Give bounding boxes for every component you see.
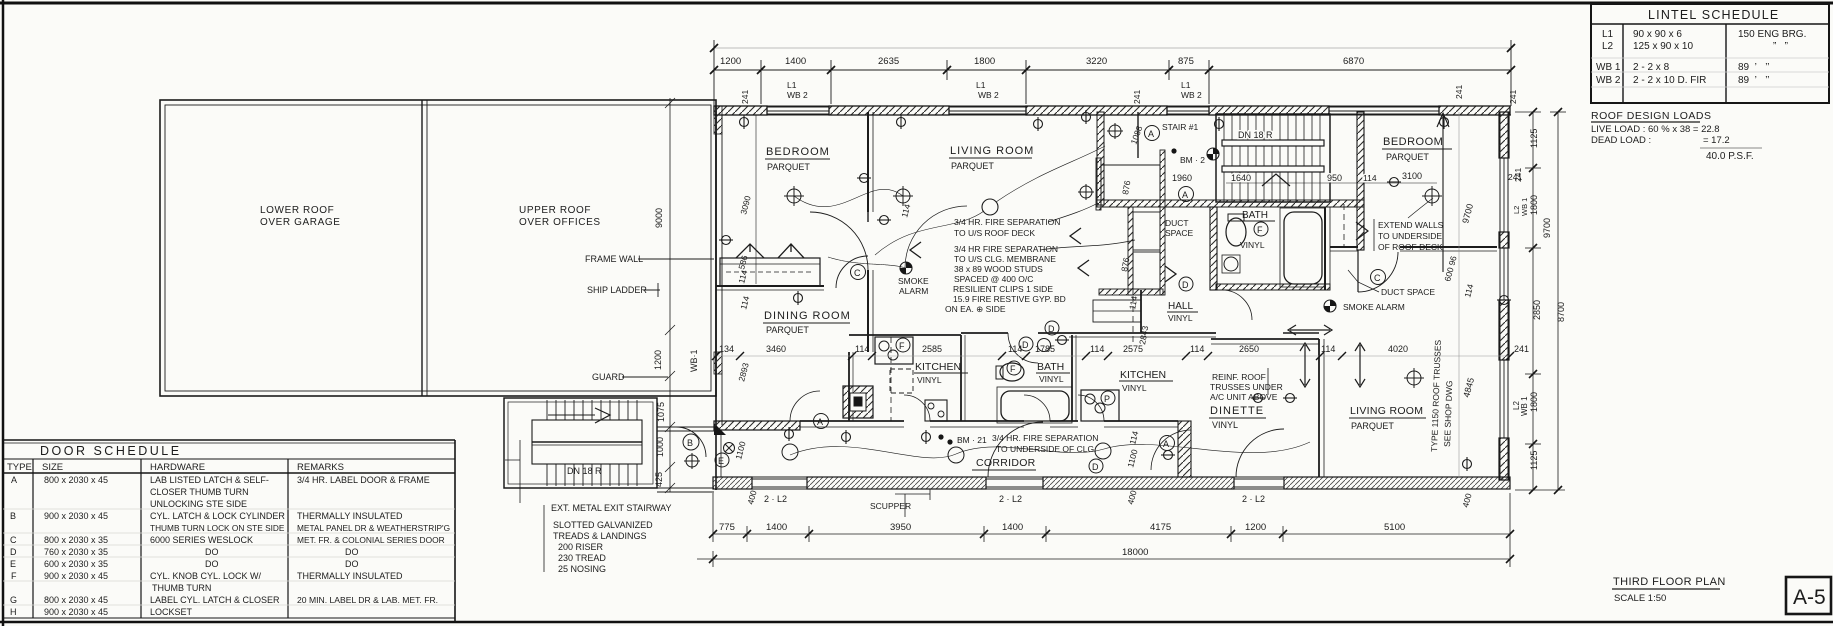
svg-text:ALARM: ALARM bbox=[899, 286, 928, 296]
svg-text:15.9 FIRE RESTIVE GYP. BD: 15.9 FIRE RESTIVE GYP. BD bbox=[953, 294, 1066, 304]
svg-text:876: 876 bbox=[1120, 179, 1132, 195]
kitchenR door arc bbox=[1078, 395, 1104, 421]
bedroom interior dim line bbox=[755, 115, 757, 284]
svg-text:6870: 6870 bbox=[1343, 56, 1364, 67]
svg-text:LIVING ROOM: LIVING ROOM bbox=[950, 145, 1034, 157]
svg-text:38 x 89 WOOD STUDS: 38 x 89 WOOD STUDS bbox=[954, 264, 1043, 274]
svg-text:3/4 HR. FIRE SEPARATION: 3/4 HR. FIRE SEPARATION bbox=[992, 433, 1098, 443]
lintel tags below dims bbox=[787, 80, 1202, 100]
bath1 tub bbox=[1284, 212, 1322, 284]
wiring curves bbox=[790, 146, 1310, 458]
svg-text:1400: 1400 bbox=[785, 56, 806, 67]
corridor north wall bbox=[714, 421, 1178, 429]
svg-text:THERMALLY INSULATED: THERMALLY INSULATED bbox=[297, 511, 403, 521]
svg-text:SCALE 1:50: SCALE 1:50 bbox=[1614, 593, 1666, 604]
svg-text:400: 400 bbox=[1460, 492, 1473, 509]
bath1 east wall bbox=[1325, 207, 1330, 290]
main dim line bbox=[714, 40, 1511, 106]
svg-text:D: D bbox=[1182, 280, 1189, 290]
south door sills bbox=[752, 479, 1284, 487]
svg-text:3100: 3100 bbox=[1402, 171, 1422, 181]
north windows (thin) bbox=[767, 107, 1439, 114]
svg-text:2 · L2: 2 · L2 bbox=[764, 494, 787, 504]
bedroom door arc bbox=[810, 212, 868, 270]
svg-text:4020: 4020 bbox=[1388, 344, 1408, 354]
svg-text:UNLOCKING STE SIDE: UNLOCKING STE SIDE bbox=[150, 499, 247, 509]
svg-text:3950: 3950 bbox=[890, 522, 911, 533]
svg-text:2575: 2575 bbox=[1123, 344, 1143, 354]
leader curves for fire note bbox=[1048, 203, 1098, 222]
svg-text:760 x 2030 x 35: 760 x 2030 x 35 bbox=[44, 547, 108, 557]
svg-text:OF ROOF DECK: OF ROOF DECK bbox=[1378, 242, 1443, 252]
svg-text:WB 2: WB 2 bbox=[1181, 90, 1202, 100]
svg-text:C: C bbox=[854, 268, 861, 278]
svg-text:LABEL CYL. LATCH & CLOSER: LABEL CYL. LATCH & CLOSER bbox=[150, 595, 280, 605]
bedroom east wall bbox=[868, 112, 873, 352]
svg-text:DO: DO bbox=[345, 547, 359, 557]
svg-text:GUARD: GUARD bbox=[592, 372, 625, 382]
kitchen block top wall bbox=[849, 334, 961, 336]
svg-text:2 · L2: 2 · L2 bbox=[1242, 494, 1265, 504]
svg-text:114: 114 bbox=[1127, 295, 1139, 310]
svg-text:EXTEND WALLS: EXTEND WALLS bbox=[1378, 220, 1444, 230]
corridor south door arc bbox=[988, 422, 1043, 477]
svg-text:BM · 2: BM · 2 bbox=[1180, 155, 1205, 165]
svg-text:800 x 2030 x 45: 800 x 2030 x 45 bbox=[44, 475, 108, 485]
svg-text:E: E bbox=[10, 559, 16, 569]
north wall segment 1 bbox=[714, 106, 767, 115]
svg-text:1785: 1785 bbox=[1035, 344, 1055, 354]
svg-text:SMOKE ALARM: SMOKE ALARM bbox=[1343, 302, 1405, 312]
svg-text:VINYL: VINYL bbox=[1240, 240, 1265, 250]
svg-text:THIRD FLOOR PLAN: THIRD FLOOR PLAN bbox=[1613, 576, 1726, 588]
svg-text:F: F bbox=[899, 341, 905, 351]
svg-text:F: F bbox=[11, 571, 17, 581]
svg-text:A: A bbox=[1163, 439, 1169, 449]
dinette/livingR wall bbox=[1319, 339, 1324, 477]
svg-text:” ”: ” ” bbox=[1773, 41, 1788, 52]
svg-text:114: 114 bbox=[1363, 173, 1377, 183]
svg-text:F: F bbox=[1010, 364, 1016, 374]
smoke alarm bottom-left bbox=[724, 443, 735, 454]
chimney hatched bbox=[843, 386, 873, 418]
svg-text:134: 134 bbox=[719, 344, 734, 354]
svg-text:1400: 1400 bbox=[766, 522, 787, 533]
svg-text:PARQUET: PARQUET bbox=[1386, 152, 1429, 162]
dim ticks bbox=[710, 44, 1515, 74]
living room big swing bbox=[905, 206, 967, 268]
svg-text:2 - 2 x 10 D. FIR: 2 - 2 x 10 D. FIR bbox=[1633, 75, 1706, 86]
svg-text:SHIP LADDER: SHIP LADDER bbox=[587, 285, 647, 295]
svg-text:DN 18 R: DN 18 R bbox=[567, 466, 602, 476]
svg-text:114: 114 bbox=[1462, 283, 1475, 299]
top border bbox=[0, 2, 1833, 5]
svg-text:REMARKS: REMARKS bbox=[297, 462, 344, 473]
svg-text:LOCKSET: LOCKSET bbox=[150, 607, 193, 617]
svg-text:900 x 2030 x 45: 900 x 2030 x 45 bbox=[44, 511, 108, 521]
stair arrow bbox=[1262, 174, 1290, 186]
svg-text:90 x 90 x 6: 90 x 90 x 6 bbox=[1633, 29, 1682, 40]
svg-text:2 · L2: 2 · L2 bbox=[999, 494, 1022, 504]
svg-text:114: 114 bbox=[1127, 430, 1140, 446]
svg-text:CORRIDOR: CORRIDOR bbox=[976, 457, 1036, 469]
svg-text:89 ’ ’’: 89 ’ ’’ bbox=[1738, 75, 1770, 86]
svg-text:RESILIENT CLIPS 1 SIDE: RESILIENT CLIPS 1 SIDE bbox=[953, 284, 1053, 294]
interior vertical dim line right bbox=[1458, 112, 1460, 477]
svg-text:DO: DO bbox=[345, 559, 359, 569]
svg-text:BATH: BATH bbox=[1242, 210, 1268, 221]
kitchenL/bath wall bbox=[961, 335, 965, 421]
svg-text:E: E bbox=[718, 456, 724, 466]
svg-text:DEAD LOAD :: DEAD LOAD : bbox=[1591, 135, 1651, 146]
bathB vanity bbox=[1038, 339, 1051, 352]
svg-text:FRAME WALL: FRAME WALL bbox=[585, 254, 643, 264]
svg-text:BEDROOM: BEDROOM bbox=[766, 146, 830, 158]
svg-text:DINETTE: DINETTE bbox=[1210, 405, 1264, 417]
bottom border bbox=[0, 621, 1833, 624]
south wall segment 1 bbox=[713, 477, 752, 489]
svg-text:3090: 3090 bbox=[738, 194, 753, 215]
svg-text:LIVE LOAD : 60 % x 38 = 22.8: LIVE LOAD : 60 % x 38 = 22.8 bbox=[1591, 124, 1720, 135]
double-headed arrows livingR bbox=[1288, 325, 1365, 387]
dinette north wall bbox=[1211, 339, 1319, 344]
svg-text:H: H bbox=[10, 607, 17, 617]
svg-text:2635: 2635 bbox=[878, 56, 899, 67]
bath top wall bbox=[961, 332, 1069, 334]
svg-text:L1: L1 bbox=[787, 80, 797, 90]
svg-text:1125: 1125 bbox=[1529, 451, 1539, 470]
svg-text:BEDROOM: BEDROOM bbox=[1383, 136, 1443, 148]
svg-text:5100: 5100 bbox=[1384, 522, 1405, 533]
bath1 west wall bbox=[1210, 207, 1217, 290]
bath top door arc bbox=[1008, 333, 1038, 363]
dinette door arc from corridor bbox=[1151, 430, 1191, 470]
smoke alarm right bbox=[1324, 300, 1336, 312]
svg-text:TYPE: TYPE bbox=[7, 462, 32, 473]
svg-text:D: D bbox=[10, 547, 17, 557]
svg-text:WB 1: WB 1 bbox=[1596, 62, 1621, 73]
dining bottom wall bbox=[714, 421, 800, 430]
svg-text:VINYL: VINYL bbox=[917, 375, 942, 385]
kitchenL range bbox=[925, 400, 947, 421]
svg-text:LAB LISTED LATCH & SELF-: LAB LISTED LATCH & SELF- bbox=[150, 475, 269, 485]
svg-text:THUMB TURN: THUMB TURN bbox=[152, 583, 211, 593]
svg-text:89 ’ ’’: 89 ’ ’’ bbox=[1738, 62, 1770, 73]
svg-text:VINYL: VINYL bbox=[1212, 420, 1238, 430]
svg-text:TO U/S CLG. MEMBRANE: TO U/S CLG. MEMBRANE bbox=[954, 254, 1056, 264]
svg-text:DUCT: DUCT bbox=[1165, 218, 1189, 228]
bath1 vanity bbox=[1224, 257, 1238, 271]
svg-text:4175: 4175 bbox=[1150, 522, 1171, 533]
svg-text:2 - 2 x 8: 2 - 2 x 8 bbox=[1633, 62, 1670, 73]
svg-text:875: 875 bbox=[1178, 56, 1194, 67]
svg-text:SMOKE: SMOKE bbox=[898, 276, 929, 286]
svg-text:D: D bbox=[1022, 340, 1029, 350]
roof divider wall bbox=[421, 100, 423, 396]
svg-text:D: D bbox=[1092, 462, 1099, 472]
svg-text:L1: L1 bbox=[1602, 29, 1614, 40]
svg-text:DOOR SCHEDULE: DOOR SCHEDULE bbox=[40, 444, 182, 458]
svg-text:114: 114 bbox=[1190, 344, 1204, 354]
south wall segment 3 bbox=[1043, 477, 1234, 489]
svg-text:WB 1: WB 1 bbox=[1520, 198, 1529, 216]
dining door from corridor bbox=[790, 391, 820, 421]
faint upper line bbox=[714, 47, 1511, 49]
svg-text:SIZE: SIZE bbox=[42, 462, 63, 473]
kitchenL counter + sink bbox=[875, 337, 913, 364]
west wall bbox=[716, 106, 722, 432]
svg-text:1200: 1200 bbox=[1245, 522, 1266, 533]
svg-text:SEE SHOP DWG: SEE SHOP DWG bbox=[1442, 380, 1454, 447]
continuous wall face lines bbox=[713, 106, 1511, 489]
wall below stair1 bbox=[1097, 200, 1364, 207]
circled B door label bbox=[683, 434, 699, 450]
svg-text:METAL PANEL DR & WEATHERSTRIP': METAL PANEL DR & WEATHERSTRIP'G bbox=[297, 523, 450, 533]
svg-text:DN 18 R: DN 18 R bbox=[1238, 130, 1273, 140]
svg-text:1100: 1100 bbox=[1125, 448, 1139, 469]
svg-text:3460: 3460 bbox=[766, 344, 786, 354]
left border bbox=[2, 0, 5, 626]
svg-text:TREADS & LANDINGS: TREADS & LANDINGS bbox=[553, 531, 647, 541]
svg-text:PARQUET: PARQUET bbox=[951, 161, 994, 171]
svg-text:L2: L2 bbox=[1602, 41, 1614, 52]
svg-text:THERMALLY INSULATED: THERMALLY INSULATED bbox=[297, 571, 403, 581]
svg-text:PARQUET: PARQUET bbox=[1351, 421, 1394, 431]
hall/kitchen top wall bbox=[1069, 333, 1216, 337]
svg-text:C: C bbox=[1374, 273, 1381, 283]
svg-text:3220: 3220 bbox=[1086, 56, 1107, 67]
svg-text:2850: 2850 bbox=[1532, 300, 1542, 320]
svg-text:PARQUET: PARQUET bbox=[767, 162, 810, 172]
svg-text:241: 241 bbox=[1508, 90, 1518, 104]
svg-text:STAIR #1: STAIR #1 bbox=[1162, 122, 1198, 132]
door jamb chevrons bbox=[910, 228, 1176, 282]
circled A second bbox=[1179, 187, 1194, 202]
stair treads bbox=[547, 400, 637, 486]
svg-text:1800: 1800 bbox=[1529, 392, 1539, 412]
svg-text:TO UNDERSIDE: TO UNDERSIDE bbox=[1378, 231, 1442, 241]
svg-text:WB 1: WB 1 bbox=[1520, 396, 1529, 416]
svg-text:DO: DO bbox=[205, 547, 219, 557]
svg-text:2650: 2650 bbox=[1239, 344, 1259, 354]
svg-text:600 x 2030 x 35: 600 x 2030 x 35 bbox=[44, 559, 108, 569]
kitchenR counter + sink bbox=[1081, 390, 1119, 421]
bath1 toilet bbox=[1226, 218, 1246, 246]
svg-text:1200: 1200 bbox=[653, 350, 663, 370]
south wall segment 2 bbox=[807, 477, 986, 489]
svg-text:CYL. LATCH & LOCK CYLINDER: CYL. LATCH & LOCK CYLINDER bbox=[150, 511, 285, 521]
svg-text:DINING ROOM: DINING ROOM bbox=[764, 310, 851, 322]
svg-text:L1: L1 bbox=[1181, 80, 1191, 90]
svg-text:114: 114 bbox=[855, 344, 869, 354]
svg-text:B: B bbox=[10, 511, 16, 521]
svg-text:241: 241 bbox=[740, 90, 750, 104]
bedroom2 west wall bbox=[1357, 112, 1364, 250]
south wall segment 4 bbox=[1284, 477, 1510, 489]
svg-text:2585: 2585 bbox=[922, 344, 942, 354]
BM.21 note bbox=[938, 434, 943, 439]
svg-text:REINF. ROOF: REINF. ROOF bbox=[1212, 372, 1266, 382]
svg-text:A: A bbox=[1148, 129, 1154, 139]
svg-text:2843: 2843 bbox=[1137, 325, 1150, 346]
svg-text:114: 114 bbox=[736, 269, 749, 285]
svg-text:1640: 1640 bbox=[1231, 173, 1251, 183]
ceiling lights bbox=[684, 123, 1442, 469]
svg-text:775: 775 bbox=[719, 522, 735, 533]
dining west bottom corner triangle bbox=[714, 423, 726, 435]
svg-text:C: C bbox=[10, 535, 17, 545]
svg-text:1960: 1960 bbox=[1172, 173, 1192, 183]
svg-text:3/4 HR. LABEL DOOR & FRAME: 3/4 HR. LABEL DOOR & FRAME bbox=[297, 475, 430, 485]
svg-text:MET. FR. & COLONIAL SERIES DOO: MET. FR. & COLONIAL SERIES DOOR bbox=[297, 535, 445, 545]
dining door arc (C) bbox=[836, 256, 868, 288]
svg-text:OVER GARAGE: OVER GARAGE bbox=[260, 217, 341, 228]
bath1 south wall bbox=[1216, 284, 1330, 290]
svg-text:8700: 8700 bbox=[1556, 302, 1566, 322]
svg-text:SPACED @ 400 O/C: SPACED @ 400 O/C bbox=[954, 274, 1033, 284]
west wall corner hatch bbox=[714, 106, 722, 134]
bedroom/dining divider wall bbox=[716, 286, 824, 290]
svg-text:1125: 1125 bbox=[1529, 129, 1539, 148]
svg-text:400: 400 bbox=[1125, 489, 1138, 506]
svg-text:800 x 2030 x 45: 800 x 2030 x 45 bbox=[44, 595, 108, 605]
svg-text:DO: DO bbox=[205, 559, 219, 569]
door arc at exit bbox=[676, 427, 706, 457]
svg-text:950: 950 bbox=[1327, 173, 1342, 183]
svg-text:HALL: HALL bbox=[1168, 301, 1193, 312]
svg-text:114: 114 bbox=[1090, 344, 1104, 354]
kitchenL west wall bbox=[849, 352, 853, 421]
bedroom2 up arrow bbox=[1437, 113, 1449, 272]
bathB door arc bbox=[1024, 395, 1050, 421]
east windows bbox=[1500, 158, 1508, 438]
livingR north wall piece bbox=[1283, 332, 1319, 334]
svg-text:1400: 1400 bbox=[1002, 522, 1023, 533]
livingR south door arc bbox=[1236, 429, 1284, 477]
svg-text:6000 SERIES WESLOCK: 6000 SERIES WESLOCK bbox=[150, 535, 253, 545]
kitchenL fridge dashed bbox=[890, 369, 913, 393]
circled A bbox=[1145, 126, 1160, 141]
hall west wall bbox=[1140, 290, 1142, 333]
svg-text:1800: 1800 bbox=[974, 56, 995, 67]
north wall segment 2 bbox=[829, 106, 949, 115]
bedroom closet bbox=[720, 258, 820, 286]
smoke alarm (living) bbox=[900, 262, 912, 274]
exit walkway walls bbox=[657, 427, 714, 492]
svg-text:200 RISER: 200 RISER bbox=[558, 542, 604, 552]
svg-text:1100: 1100 bbox=[733, 440, 747, 461]
svg-text:VINYL: VINYL bbox=[1122, 383, 1147, 393]
svg-text:1088: 1088 bbox=[1128, 124, 1144, 145]
svg-text:= 17.2: = 17.2 bbox=[1703, 135, 1730, 146]
svg-text:WB 2: WB 2 bbox=[1596, 75, 1621, 86]
svg-text:SLOTTED GALVANIZED: SLOTTED GALVANIZED bbox=[553, 520, 653, 530]
svg-text:9000: 9000 bbox=[654, 208, 664, 228]
svg-text:P: P bbox=[1104, 394, 1110, 404]
svg-text:2893: 2893 bbox=[736, 361, 751, 382]
svg-text:A: A bbox=[817, 417, 823, 427]
svg-text:LOWER ROOF: LOWER ROOF bbox=[260, 205, 334, 216]
svg-text:WB 2: WB 2 bbox=[787, 90, 808, 100]
svg-text:LIVING ROOM: LIVING ROOM bbox=[1350, 405, 1423, 417]
svg-text:ON EA. ⊕ SIDE: ON EA. ⊕ SIDE bbox=[945, 304, 1006, 314]
svg-text:900 x 2030 x 45: 900 x 2030 x 45 bbox=[44, 607, 108, 617]
svg-text:KITCHEN: KITCHEN bbox=[915, 361, 961, 373]
svg-text:114: 114 bbox=[899, 203, 912, 219]
svg-text:G: G bbox=[10, 595, 17, 605]
svg-text:SPACE: SPACE bbox=[1165, 228, 1194, 238]
bedroom2 door arc bbox=[1358, 252, 1398, 292]
svg-text:241: 241 bbox=[1514, 344, 1529, 354]
svg-text:THUMB TURN LOCK ON STE SIDE: THUMB TURN LOCK ON STE SIDE bbox=[150, 523, 285, 533]
svg-text:BM · 21: BM · 21 bbox=[957, 435, 987, 445]
svg-text:114: 114 bbox=[1008, 344, 1022, 354]
svg-text:KITCHEN: KITCHEN bbox=[1120, 369, 1166, 381]
svg-text:CYL. KNOB CYL. LOCK W/: CYL. KNOB CYL. LOCK W/ bbox=[150, 571, 262, 581]
svg-text:A/C UNIT ABOVE: A/C UNIT ABOVE bbox=[1210, 392, 1278, 402]
stair1 west wall (hatched) bbox=[1097, 112, 1104, 205]
label BM.2 with dot bbox=[1171, 148, 1176, 153]
svg-text:600 96: 600 96 bbox=[1442, 255, 1458, 283]
svg-text:WB 2: WB 2 bbox=[978, 90, 999, 100]
bathB tub bbox=[1001, 391, 1069, 421]
svg-text:OVER OFFICES: OVER OFFICES bbox=[519, 217, 601, 228]
svg-text:4845: 4845 bbox=[1461, 377, 1476, 399]
bathB toilet bbox=[1000, 363, 1024, 381]
svg-text:150 ENG BRG.: 150 ENG BRG. bbox=[1738, 29, 1806, 40]
svg-text:25 NOSING: 25 NOSING bbox=[558, 564, 606, 574]
svg-text:114: 114 bbox=[1321, 344, 1335, 354]
dinette west wall stub (hatched) bbox=[1178, 421, 1191, 477]
svg-text:114: 114 bbox=[738, 295, 751, 311]
svg-text:1800: 1800 bbox=[1529, 195, 1539, 215]
svg-text:425: 425 bbox=[654, 472, 664, 487]
kitchenL door arc bbox=[904, 395, 930, 421]
svg-text:241: 241 bbox=[1454, 85, 1464, 99]
svg-text:D: D bbox=[1048, 324, 1055, 334]
direction arrow chevron bbox=[595, 408, 610, 423]
svg-text:TO U/S ROOF DECK: TO U/S ROOF DECK bbox=[954, 228, 1035, 238]
bath1 door arc bbox=[1222, 290, 1252, 320]
middle duct closets bbox=[1093, 112, 1165, 345]
svg-text:L1: L1 bbox=[976, 80, 986, 90]
svg-text:20 MIN. LABEL DR & LAB. MET. F: 20 MIN. LABEL DR & LAB. MET. FR. bbox=[297, 595, 438, 605]
svg-text:A: A bbox=[1182, 190, 1188, 200]
closet rod hooks bbox=[736, 244, 764, 258]
svg-text:A: A bbox=[11, 475, 17, 485]
svg-text:UPPER ROOF: UPPER ROOF bbox=[519, 205, 591, 216]
bedroom2 south wall bbox=[1330, 247, 1497, 251]
svg-text:CLOSER THUMB TURN: CLOSER THUMB TURN bbox=[150, 487, 249, 497]
north wall segment 5 bbox=[1439, 106, 1510, 115]
wall outlet symbols bbox=[719, 110, 1511, 471]
svg-text:18000: 18000 bbox=[1122, 547, 1148, 558]
svg-text:F: F bbox=[1257, 225, 1263, 235]
svg-text:9700: 9700 bbox=[1542, 218, 1552, 238]
west corridor end wall bbox=[716, 430, 721, 490]
east wall hatched segments bbox=[1499, 112, 1509, 158]
svg-text:1200: 1200 bbox=[720, 56, 741, 67]
svg-text:WB·1: WB·1 bbox=[689, 350, 699, 373]
svg-text:900 x 2030 x 45: 900 x 2030 x 45 bbox=[44, 571, 108, 581]
svg-text:HARDWARE: HARDWARE bbox=[150, 462, 205, 473]
svg-text:EXT. METAL EXIT STAIRWAY: EXT. METAL EXIT STAIRWAY bbox=[551, 503, 672, 513]
svg-text:TRUSSES UNDER: TRUSSES UNDER bbox=[1210, 382, 1283, 392]
svg-text:VINYL: VINYL bbox=[1039, 374, 1064, 384]
svg-text:125 x 90 x 10: 125 x 90 x 10 bbox=[1633, 41, 1693, 52]
svg-text:241: 241 bbox=[1508, 172, 1522, 182]
stair mid landing rails bbox=[532, 420, 642, 464]
